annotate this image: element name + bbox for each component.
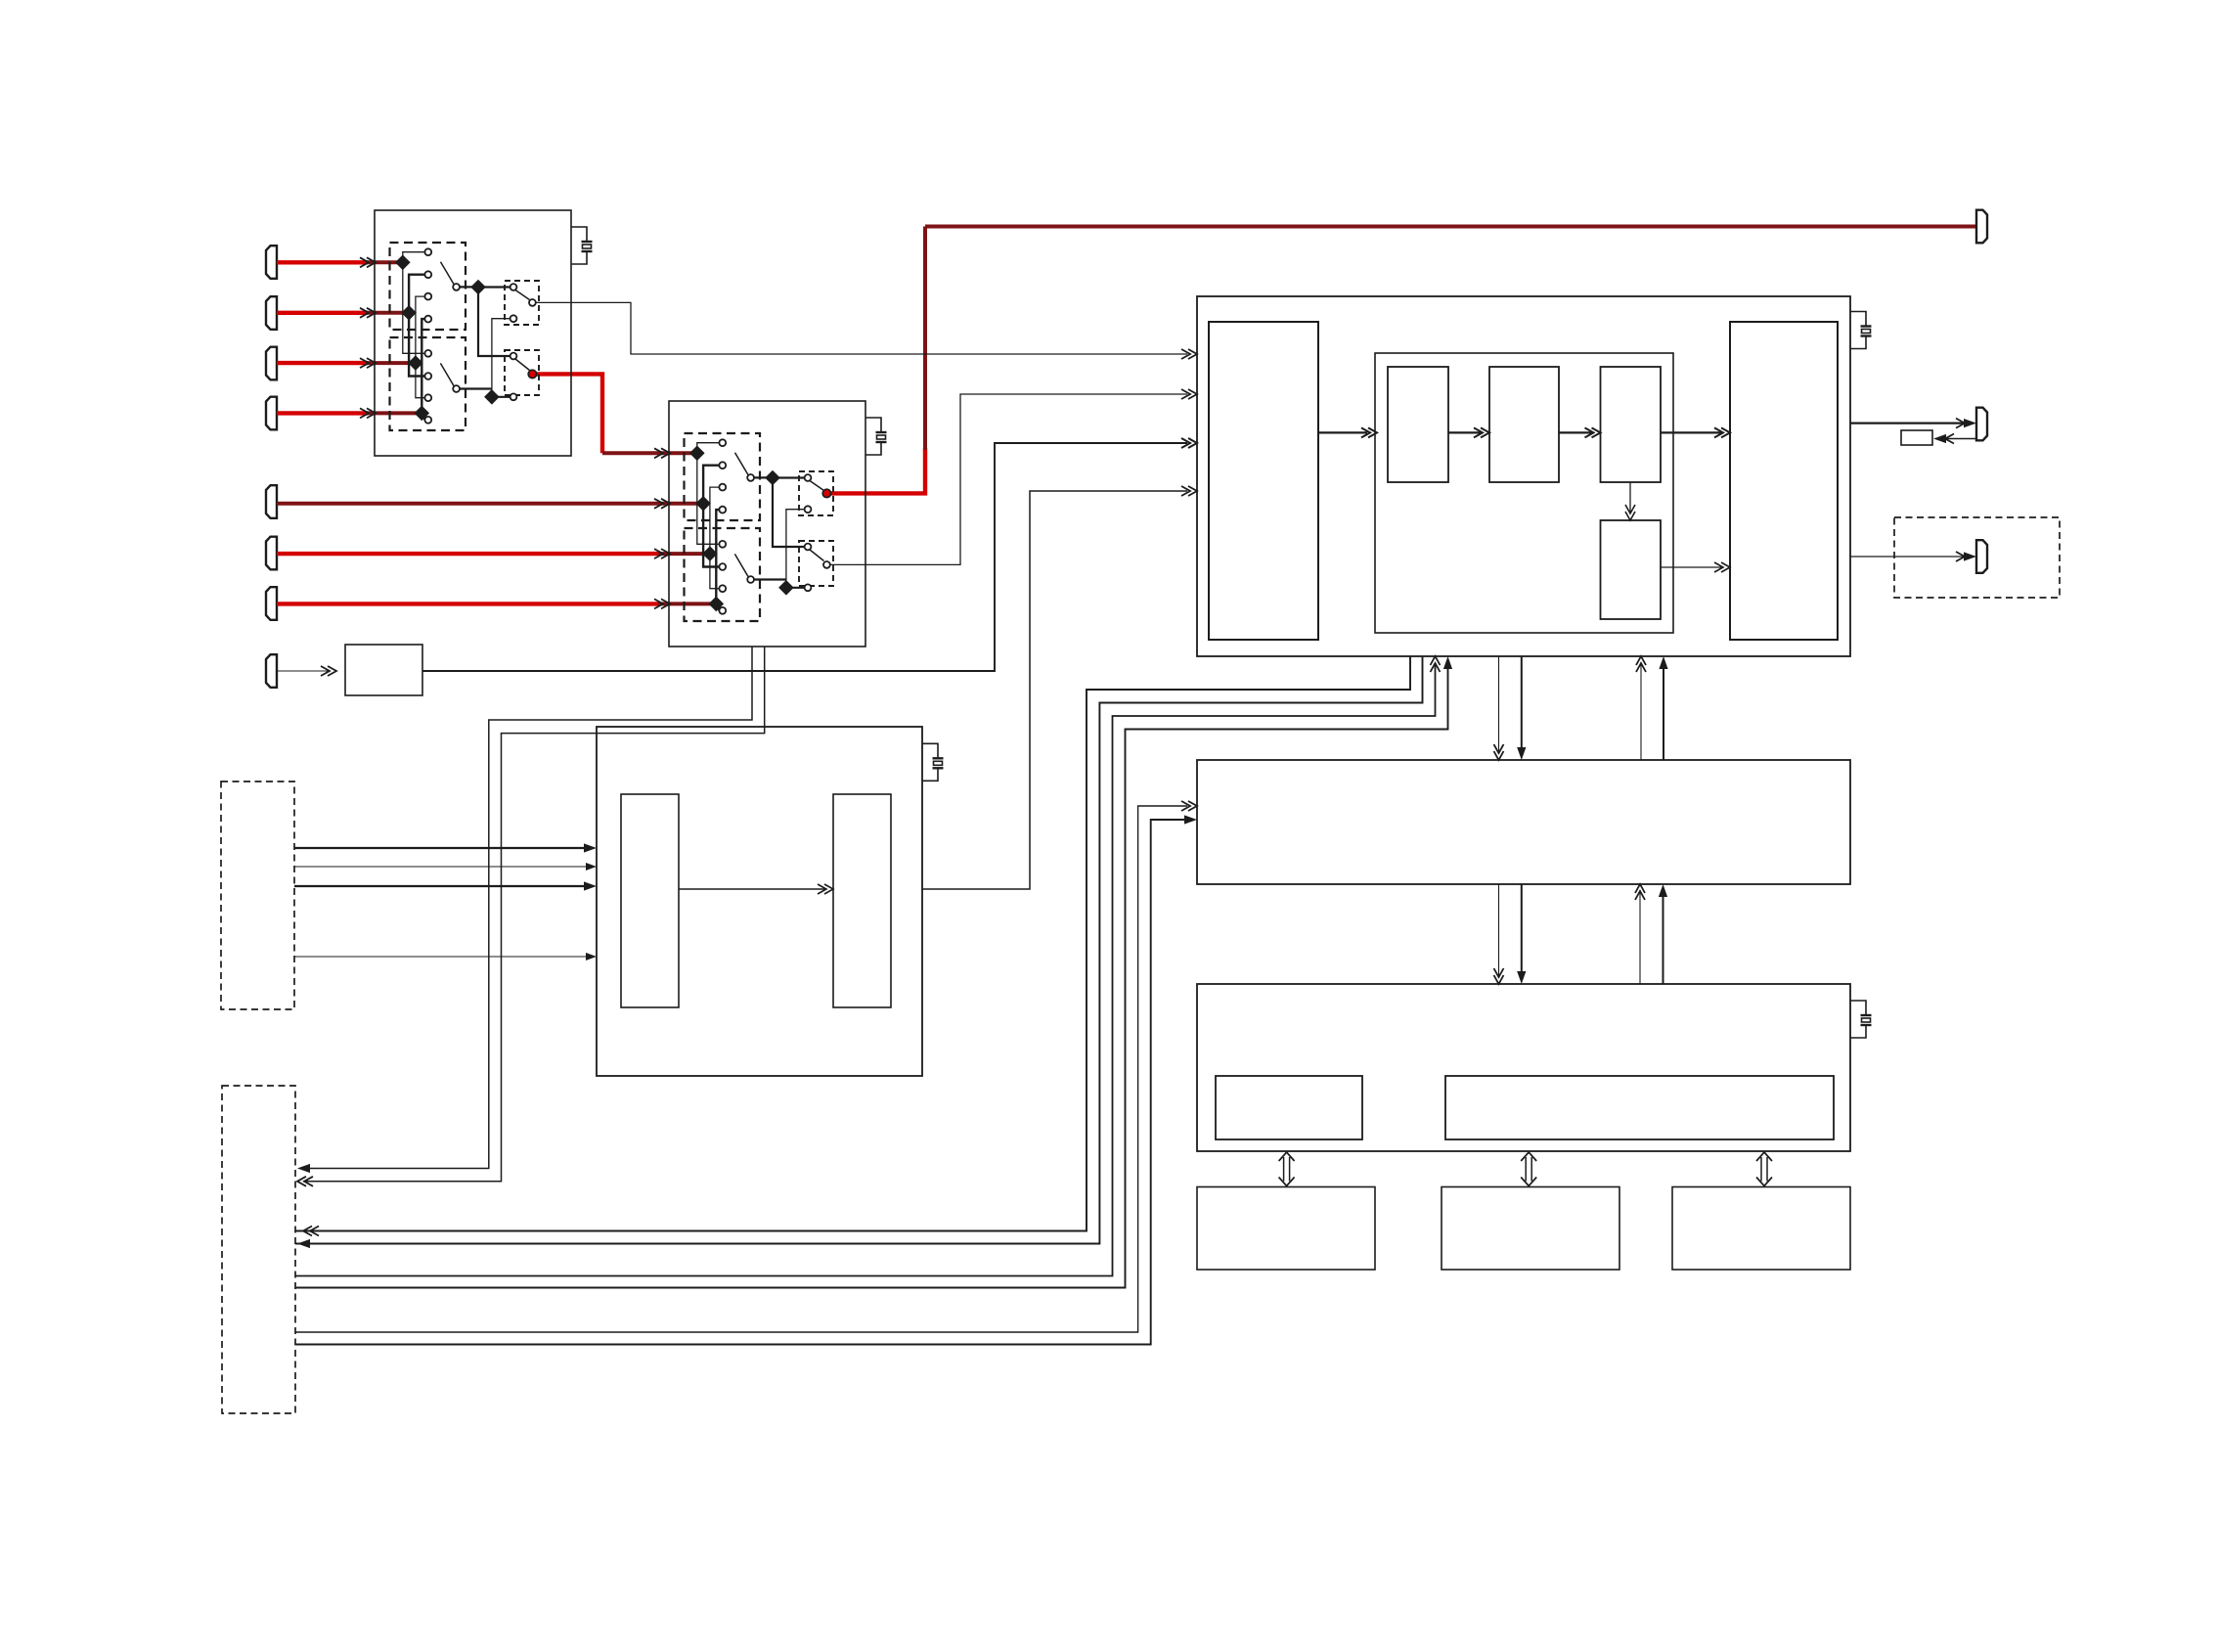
- wire U1 input3 to S1B contact: [416, 363, 425, 398]
- arrow into IC main in4: [1181, 486, 1197, 496]
- wire U2 input3 to S2A contact: [710, 487, 720, 554]
- wire C down to D: [1629, 482, 1631, 513]
- arrow link b: [1517, 747, 1526, 760]
- switch S2D blade: [810, 550, 824, 561]
- rear AV jack dashed box: [222, 1086, 295, 1413]
- wire dark red input 3 stub: [366, 361, 416, 365]
- wire U1 input1 to S1B contact: [403, 262, 425, 353]
- wire U2 pin down-left A: [303, 647, 752, 1169]
- junction U1 input1: [395, 255, 411, 271]
- IC U4 main video processor box: [1197, 296, 1850, 656]
- contact S1C-1: [510, 284, 517, 290]
- contact S2A-3: [719, 484, 726, 491]
- arrow link e: [1494, 968, 1504, 984]
- wire U2 input3 to S2B contact: [710, 554, 720, 589]
- switch S2B blade: [734, 554, 748, 576]
- junction U1 input2: [401, 305, 417, 321]
- buffer block: [345, 645, 422, 695]
- arrow input 2: [360, 308, 376, 318]
- arrow link g: [1635, 884, 1645, 900]
- contact S1A-1: [424, 248, 431, 255]
- wire red U2 output: [826, 448, 925, 493]
- wire CN10 return: [1945, 438, 1976, 440]
- connector CN9 (top red): [1976, 210, 1987, 244]
- bus wire 5: [295, 806, 1187, 1332]
- crystal X1: [571, 227, 593, 264]
- switch S2C enclosure: [799, 471, 833, 515]
- wire red input 3 from CN3: [277, 361, 368, 365]
- contact S1D-2: [510, 393, 517, 400]
- crystal X3: [922, 743, 944, 781]
- connector CN4: [266, 397, 277, 430]
- wire U4 aux out: [1850, 556, 1964, 558]
- wire red input 7 from CN7: [277, 602, 658, 605]
- arrow aux out: [1956, 552, 1976, 561]
- wire jack out 1: [294, 847, 589, 849]
- wire red input 4 from CN4: [277, 411, 368, 415]
- wire dark red input 6 stub: [658, 552, 710, 556]
- wire red input 6 from CN6: [277, 552, 658, 556]
- arrow bus3 into U4: [1431, 656, 1441, 672]
- wire J12 to S1D bottom: [492, 396, 510, 398]
- bus wire 1: [295, 656, 1410, 1231]
- arrow U2 input y514.8: [654, 499, 670, 509]
- IC U2 A/V selector box: [669, 401, 865, 647]
- arrow input 3: [360, 358, 376, 368]
- switch S1C enclosure: [505, 281, 539, 325]
- wire U1 input2 to S1A contact: [409, 275, 425, 313]
- wire jack out 2: [294, 866, 589, 868]
- contact S1A-3: [424, 293, 431, 300]
- contact S1C common: [529, 299, 536, 306]
- U4 stage D block: [1601, 520, 1662, 619]
- wire U3 output: [922, 491, 1187, 889]
- junction J22: [778, 580, 794, 596]
- U3 output block: [833, 794, 891, 1007]
- contact S1B-1: [424, 350, 431, 357]
- arrow C-encoder: [1714, 427, 1730, 437]
- contact S1A-4: [424, 316, 431, 323]
- memory block M1: [1197, 1187, 1375, 1271]
- wire U4 video out: [1850, 423, 1964, 424]
- arrow link d: [1659, 656, 1667, 669]
- wire J22 to S2D bottom: [786, 587, 805, 589]
- wire red input 1 from CN1: [277, 260, 368, 264]
- wire U2 input1 to S2A contact: [697, 443, 720, 454]
- wire U2 input4 to S2A contact: [716, 510, 719, 603]
- memory block M3: [1672, 1187, 1850, 1271]
- arrow video out: [1956, 419, 1976, 428]
- wire U2 input1 to S2B contact: [697, 453, 720, 544]
- connector CN1: [266, 246, 277, 279]
- connector CN11 aux out: [1976, 540, 1987, 573]
- arrow into shield box B: [297, 1177, 313, 1186]
- arrow link f: [1517, 971, 1526, 984]
- contact S1B-2: [424, 373, 431, 380]
- wire jack out 3: [294, 885, 589, 887]
- arrow U3 in2: [586, 863, 597, 871]
- arrow U2 input y566.1: [654, 549, 670, 558]
- wire jack out 4: [294, 956, 589, 958]
- arrow into IC main in3: [1181, 438, 1197, 448]
- wire junction J21 to S2C top: [773, 476, 805, 478]
- junction J12: [484, 389, 500, 405]
- arrow into shield box A: [297, 1164, 310, 1173]
- wire U3 internal: [679, 888, 825, 890]
- link U4 to U5 b: [1521, 656, 1523, 748]
- wire S1A common out: [460, 286, 478, 288]
- wire S1B common out: [460, 387, 492, 389]
- contact S2B-2: [719, 563, 726, 570]
- arrow C-D: [1625, 505, 1635, 520]
- U4 DSP container block: [1375, 353, 1673, 633]
- switch S2D enclosure: [799, 541, 833, 586]
- junction J11: [470, 280, 486, 295]
- U6 bus interface block: [1445, 1076, 1834, 1139]
- wire red input 2 from CN2: [277, 311, 368, 315]
- wire U2 lower output: [826, 394, 1187, 564]
- wire buffer output: [422, 443, 1187, 671]
- switch S1B blade: [440, 363, 454, 385]
- switch S1B group enclosure: [390, 337, 466, 430]
- arrow bus4 into U4: [1443, 656, 1452, 669]
- link U4 to U5 a: [1498, 656, 1500, 752]
- contact S1B-3: [424, 394, 431, 401]
- U4 output encoder block: [1730, 322, 1838, 640]
- U4 stage C block: [1601, 367, 1662, 482]
- wire dark red input 4 stub: [366, 411, 421, 415]
- arrow decoder-DSP: [1361, 427, 1377, 437]
- connector CN7: [266, 587, 277, 620]
- bus double-arrow U6-M1: [1279, 1152, 1295, 1186]
- contact S1A-2: [424, 271, 431, 278]
- wire C to encoder: [1661, 431, 1722, 433]
- wire U1 input3 to S1A contact: [416, 296, 425, 363]
- switch S1A group enclosure: [390, 243, 466, 330]
- contact S1A common: [453, 284, 460, 290]
- switch S1D enclosure: [505, 350, 539, 395]
- connector CN3: [266, 347, 277, 380]
- connector CN8: [266, 654, 277, 688]
- wire S2A common out: [754, 476, 773, 478]
- link U6 to U5 c: [1639, 892, 1641, 984]
- wire dark red top bus to CN9: [925, 225, 1976, 229]
- contact S1D common (red out): [528, 370, 536, 378]
- arrow D-encoder: [1714, 562, 1730, 572]
- wire dark red into U2 input1: [602, 451, 697, 455]
- arrow return into terminator: [1933, 434, 1954, 444]
- contact S1B common: [453, 385, 460, 392]
- wire D to encoder: [1661, 566, 1722, 568]
- terminator block: [1901, 430, 1932, 445]
- wire J21 down to S2D: [773, 478, 805, 548]
- bus wire 2: [295, 656, 1423, 1244]
- wire dark red input 5 stub: [658, 502, 703, 506]
- wire U1 input2 to S1B contact: [409, 313, 425, 377]
- wire junction J11 to S1C top: [478, 286, 510, 288]
- contact S2B common: [747, 576, 754, 583]
- wire dark red input 5 from CN5: [277, 502, 658, 506]
- arrow into IC main in1: [1181, 349, 1197, 359]
- wire U1 input4 to S1A contact: [421, 319, 424, 413]
- arrow U2 input y617.4: [654, 599, 670, 608]
- IC U1 A/V selector box: [375, 210, 571, 456]
- crystal X2: [865, 418, 887, 455]
- contact S2A-1: [719, 439, 726, 446]
- IC U6 microcontroller box: [1197, 984, 1850, 1151]
- link U5 to U4 d: [1663, 668, 1664, 760]
- wire U1 upper output: [532, 302, 1187, 354]
- bus wire 4: [295, 668, 1448, 1288]
- wire U4 decoder to DSP: [1318, 431, 1367, 433]
- arrow link a: [1494, 744, 1504, 760]
- wire J11 down to S1D: [478, 288, 510, 357]
- contact S2D common: [823, 561, 830, 568]
- wire U1 input1 to S1A contact: [403, 252, 425, 263]
- switch S1C blade: [515, 290, 530, 300]
- connector CN5: [266, 485, 277, 518]
- switch S2A group enclosure: [685, 433, 761, 520]
- memory block M2: [1442, 1187, 1619, 1271]
- IC U5 system control box: [1197, 760, 1850, 884]
- arrow bus5 into U5: [1181, 801, 1197, 811]
- switch S1A blade: [441, 262, 455, 285]
- wire S1C bottom contact feed: [492, 319, 510, 397]
- arrow U3 in3: [584, 881, 597, 890]
- contact S2C-1: [805, 474, 812, 481]
- link U5 to U4 c: [1640, 664, 1642, 760]
- U6 port block: [1216, 1076, 1362, 1139]
- junction J21: [765, 470, 780, 486]
- bus wire 6: [295, 820, 1184, 1345]
- bus wire 3: [295, 664, 1436, 1276]
- contact S1B-4: [424, 417, 431, 424]
- contact S2A-2: [719, 462, 726, 469]
- contact S2B-3: [719, 585, 726, 592]
- wire U2 input2 to S2A contact: [703, 466, 720, 504]
- arrow input 1: [360, 257, 376, 267]
- contact S2D-2: [805, 584, 812, 591]
- junction U2 input2: [695, 496, 711, 512]
- wire dark red vertical riser: [923, 227, 927, 451]
- option dashed box: [1894, 517, 2060, 598]
- switch S2B group enclosure: [685, 528, 761, 621]
- U4 input decoder block: [1209, 322, 1318, 640]
- wire dark red input 1 stub: [366, 260, 403, 264]
- contact S1D-1: [510, 353, 517, 360]
- link U5 to U6 b: [1521, 884, 1523, 972]
- wire dark red input 7 stub: [658, 602, 716, 605]
- wire red U1 output to U2: [532, 374, 602, 453]
- arrow input 4: [360, 408, 376, 418]
- crystal X4: [1850, 312, 1872, 349]
- arrow A-B: [1474, 427, 1489, 437]
- wire B to C: [1559, 431, 1592, 433]
- bus double-arrow U6-M2: [1521, 1152, 1536, 1186]
- bus double-arrow U6-M3: [1756, 1152, 1772, 1186]
- arrow B-C: [1585, 427, 1601, 437]
- arrow U2 input y463.3: [654, 448, 670, 458]
- contact S2A common: [747, 474, 754, 481]
- wire U2 pin down-left B: [303, 647, 765, 1182]
- wire U2 input2 to S2B contact: [703, 504, 720, 567]
- wire U1 input4 to S1B contact: [421, 413, 424, 420]
- link U5 to U6 a: [1498, 884, 1500, 976]
- wire dark red input 2 stub: [366, 311, 409, 315]
- arrow link h: [1659, 884, 1667, 897]
- contact S1C-2: [510, 315, 517, 322]
- contact S2D-1: [805, 544, 812, 551]
- switch S2C blade: [810, 481, 824, 491]
- junction U1 input3: [408, 355, 423, 371]
- wire S2C bottom contact feed: [786, 510, 805, 588]
- contact S2B-1: [719, 541, 726, 548]
- link U6 to U5 d: [1663, 896, 1664, 984]
- junction U2 input4: [709, 597, 725, 612]
- U3 input block: [621, 794, 679, 1007]
- arrow into IC main in2: [1181, 389, 1197, 399]
- contact S2B-4: [719, 607, 726, 614]
- U4 stage B block: [1489, 367, 1559, 482]
- switch S1D blade: [515, 359, 530, 371]
- arrow U3 in1: [584, 843, 597, 852]
- U4 stage A block: [1388, 367, 1448, 482]
- arrow bus2 into shield: [297, 1239, 310, 1248]
- junction U2 input1: [689, 446, 705, 462]
- arrow U3 in4: [586, 953, 597, 960]
- crystal X6: [1850, 1001, 1872, 1038]
- connector CN6: [266, 537, 277, 570]
- arrow link c: [1636, 656, 1646, 672]
- IC U3 audio processor box: [597, 727, 922, 1076]
- contact S2A-4: [719, 507, 726, 513]
- arrow U3 internal: [818, 884, 833, 894]
- contact S2C common (red out): [822, 489, 830, 497]
- wire U2 input4 to S2B contact: [716, 603, 719, 610]
- arrow into buffer: [321, 666, 336, 676]
- arrow bus1 into shield: [303, 1227, 319, 1236]
- connector CN2: [266, 296, 277, 330]
- wire A to B: [1448, 431, 1482, 433]
- junction U2 input3: [702, 546, 718, 561]
- junction U1 input4: [415, 406, 430, 422]
- switch S2A blade: [735, 453, 749, 475]
- wire CN8 to buffer: [277, 670, 329, 672]
- arrow bus6 into U5: [1184, 815, 1197, 824]
- front AV jack dashed box: [221, 781, 294, 1009]
- wire S2B common out: [754, 578, 786, 580]
- connector CN10 video out: [1976, 408, 1987, 441]
- contact S2C-2: [805, 506, 812, 513]
